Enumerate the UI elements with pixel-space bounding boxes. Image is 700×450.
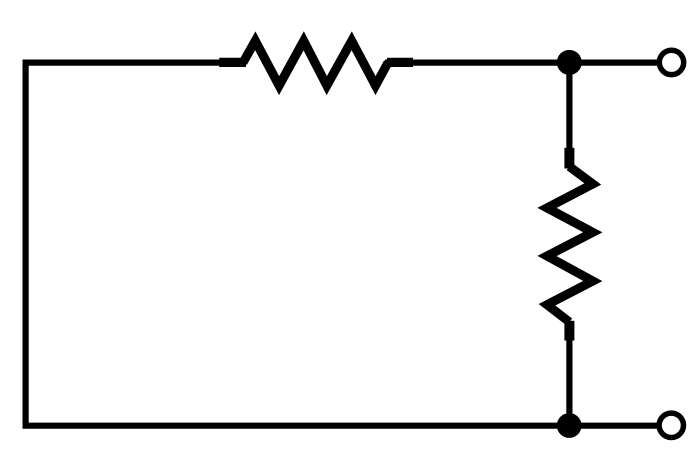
wire: top-left + left side + bottom run xyxy=(26,63,658,426)
resistor R2 zigzag body xyxy=(547,167,593,323)
junction node: bottom xyxy=(557,413,582,438)
resistor R1 right lead xyxy=(387,58,413,67)
junction node: top xyxy=(557,50,582,75)
resistor R2 top lead xyxy=(564,148,574,169)
wire: right branch upper segment xyxy=(566,63,572,152)
terminal: bottom-right open circle xyxy=(659,413,683,437)
resistor R1 left lead xyxy=(219,58,246,67)
wire: right branch lower segment xyxy=(566,336,572,426)
resistor R2 bottom lead xyxy=(564,321,574,341)
wire: top-right run from resistor to terminal xyxy=(385,59,658,65)
terminal: top-right open circle xyxy=(659,50,683,74)
resistor R1 zigzag body xyxy=(243,41,388,86)
